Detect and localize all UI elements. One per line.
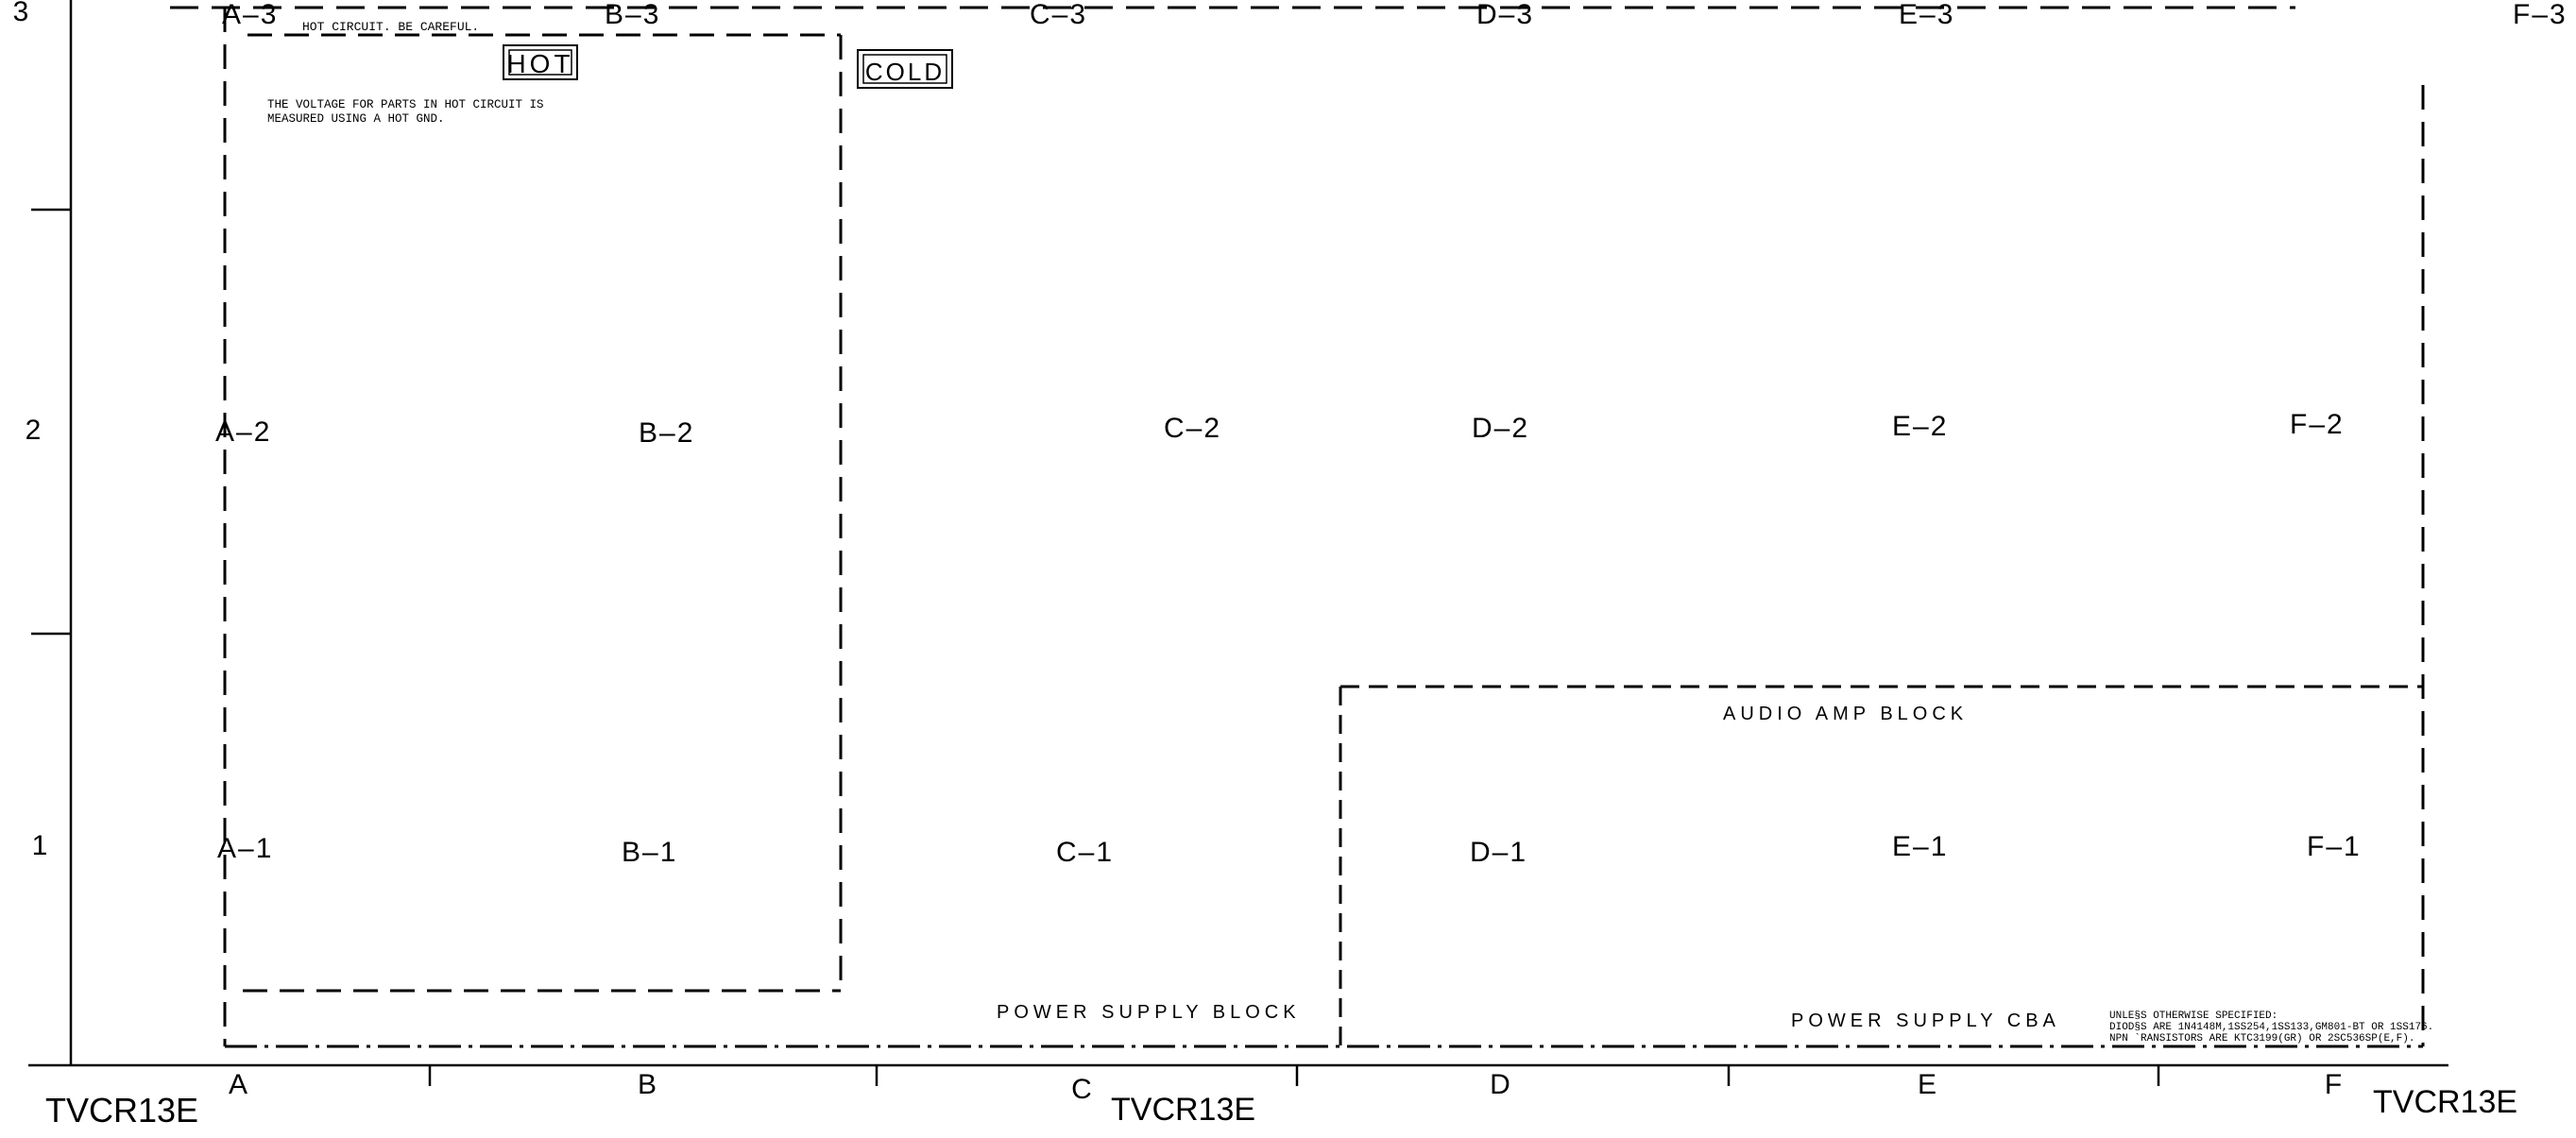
svg-text:THE VOLTAGE FOR PARTS IN HOT C: THE VOLTAGE FOR PARTS IN HOT CIRCUIT IS <box>267 98 544 111</box>
audio block dashed left <box>1339 687 1342 1046</box>
svg-text:C: C <box>1071 1074 1092 1105</box>
col tick D/E <box>1728 1065 1731 1086</box>
row tick 1/2 <box>31 633 71 636</box>
grid label F-3 partial <box>2513 0 2567 30</box>
grid row line top <box>170 7 2295 9</box>
col label A <box>229 1069 247 1100</box>
svg-text:COLD: COLD <box>865 58 945 86</box>
hot box left dashed <box>224 8 227 1046</box>
svg-text:UNLE§S OTHERWISE SPECIFIED:: UNLE§S OTHERWISE SPECIFIED: <box>2109 1011 2277 1022</box>
zone label B-2 <box>639 417 694 449</box>
COLD label box <box>858 50 952 88</box>
POWER SUPPLY CBA title <box>1791 1011 2060 1031</box>
svg-text:TVCR13E: TVCR13E <box>2373 1084 2517 1120</box>
svg-text:E–1: E–1 <box>1892 831 1948 862</box>
power supply CBA right dashed <box>2422 85 2425 1046</box>
hot circuit caution text <box>302 20 479 34</box>
svg-text:C–3: C–3 <box>1030 0 1087 30</box>
svg-text:C–1: C–1 <box>1056 837 1114 868</box>
col label B <box>638 1069 657 1100</box>
svg-text:D–2: D–2 <box>1472 413 1529 444</box>
col label F <box>2325 1069 2342 1100</box>
svg-text:B–1: B–1 <box>622 837 677 868</box>
grid label A-3 <box>222 0 278 30</box>
zone label F-1 <box>2307 831 2362 862</box>
audio block dashed top <box>1340 686 2423 688</box>
grid label E-3 <box>1899 0 1954 30</box>
title TVCR13E bottom-center <box>1111 1092 1255 1128</box>
svg-text:F–1: F–1 <box>2307 831 2362 862</box>
svg-text:1: 1 <box>32 830 48 861</box>
title TVCR13E bottom-left <box>45 1091 198 1130</box>
col tick E/F <box>2158 1065 2160 1086</box>
zone label D-1 <box>1470 837 1527 868</box>
svg-text:3: 3 <box>13 0 29 27</box>
svg-text:MEASURED USING A HOT GND.: MEASURED USING A HOT GND. <box>267 112 445 126</box>
svg-text:POWER SUPPLY BLOCK: POWER SUPPLY BLOCK <box>997 1002 1301 1023</box>
col tick B/C <box>876 1065 879 1086</box>
title TVCR13E bottom-right <box>2373 1084 2517 1120</box>
hot box bottom dashed <box>243 990 841 993</box>
AUDIO AMP BLOCK title <box>1723 704 1968 724</box>
svg-text:C–2: C–2 <box>1164 413 1221 444</box>
svg-text:D–1: D–1 <box>1470 837 1527 868</box>
zone label B-1 <box>622 837 677 868</box>
row label 3 <box>13 0 29 27</box>
border frame bottom <box>28 1064 2448 1067</box>
POWER SUPPLY BLOCK title <box>997 1002 1301 1023</box>
svg-text:F: F <box>2325 1069 2342 1100</box>
svg-text:TVCR13E: TVCR13E <box>45 1091 198 1130</box>
grid label B-3 <box>605 0 660 30</box>
svg-text:F–2: F–2 <box>2290 409 2345 440</box>
svg-text:NPN `RANSISTORS ARE KTC3199(GR: NPN `RANSISTORS ARE KTC3199(GR) OR 2SC53… <box>2109 1032 2414 1045</box>
hot box right dashed <box>840 35 843 991</box>
zone label C-1 <box>1056 837 1114 868</box>
zone label F-2 <box>2290 409 2345 440</box>
zone label A-2 <box>215 416 271 448</box>
svg-text:HOT CIRCUIT. BE CAREFUL.: HOT CIRCUIT. BE CAREFUL. <box>302 20 479 34</box>
col label D <box>1490 1069 1510 1100</box>
zone label C-2 <box>1164 413 1221 444</box>
col label E <box>1918 1069 1936 1100</box>
svg-text:2: 2 <box>26 415 42 446</box>
col tick A/B <box>429 1065 432 1086</box>
zone label A-1 <box>217 833 273 864</box>
svg-text:HOT: HOT <box>506 49 573 78</box>
svg-text:E: E <box>1918 1069 1936 1100</box>
zone label D-2 <box>1472 413 1529 444</box>
row label 1 <box>32 830 48 861</box>
svg-text:B–3: B–3 <box>605 0 660 30</box>
col tick C/D <box>1296 1065 1299 1086</box>
notes unless otherwise specified <box>2109 1011 2433 1045</box>
grid label D-3 <box>1476 0 1534 30</box>
svg-text:D–3: D–3 <box>1476 0 1534 30</box>
svg-text:E–3: E–3 <box>1899 0 1954 30</box>
svg-text:AUDIO AMP BLOCK: AUDIO AMP BLOCK <box>1723 704 1968 724</box>
svg-text:A: A <box>229 1069 247 1100</box>
svg-text:DIOD§S ARE 1N4148M,1SS254,1SS1: DIOD§S ARE 1N4148M,1SS254,1SS133,GM801-B… <box>2109 1022 2433 1033</box>
svg-text:B: B <box>638 1069 657 1100</box>
svg-text:F–3: F–3 <box>2513 0 2567 30</box>
svg-text:A–3: A–3 <box>222 0 278 30</box>
hot box inner top dashed <box>247 34 841 37</box>
power supply CBA bottom dash-dot <box>225 1045 2423 1048</box>
hot gnd note <box>267 98 544 126</box>
HOT label box <box>503 45 577 79</box>
svg-text:POWER SUPPLY CBA: POWER SUPPLY CBA <box>1791 1011 2060 1031</box>
svg-text:TVCR13E: TVCR13E <box>1111 1092 1255 1128</box>
row label 2 <box>26 415 42 446</box>
svg-text:D: D <box>1490 1069 1510 1100</box>
zone label E-1 <box>1892 831 1948 862</box>
svg-text:E–2: E–2 <box>1892 411 1948 442</box>
grid label C-3 <box>1030 0 1087 30</box>
zone label E-2 <box>1892 411 1948 442</box>
col label C <box>1071 1074 1092 1105</box>
row tick 2/3 <box>31 209 71 212</box>
svg-text:B–2: B–2 <box>639 417 694 449</box>
border frame left vertical <box>70 0 73 1065</box>
